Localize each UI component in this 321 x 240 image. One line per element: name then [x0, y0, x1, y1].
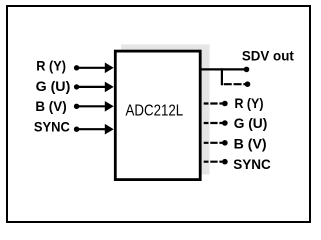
svg-text:G (U): G (U) — [36, 79, 71, 94]
svg-text:R (Y): R (Y) — [36, 59, 66, 74]
svg-text:G (U): G (U) — [234, 116, 268, 131]
svg-text:SYNC: SYNC — [233, 157, 271, 172]
svg-text:B (V): B (V) — [234, 136, 267, 151]
svg-text:SDV out: SDV out — [242, 48, 294, 63]
svg-text:B (V): B (V) — [35, 99, 66, 114]
svg-text:SYNC: SYNC — [34, 119, 70, 134]
svg-text:ADC212L: ADC212L — [126, 103, 184, 120]
svg-text:R (Y): R (Y) — [235, 96, 264, 111]
